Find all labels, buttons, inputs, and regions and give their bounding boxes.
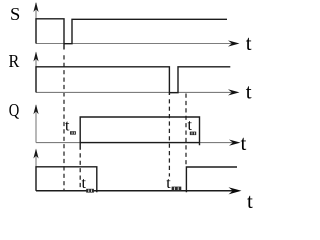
R time axis (36, 53, 233, 93)
Q axis vertical arrowhead (33, 104, 38, 114)
svg-text:t: t (65, 118, 70, 135)
R axis vertical arrowhead (33, 52, 38, 62)
dashed marker at R falling edge x=169.4 (168, 99, 170, 176)
dashed marker at Q rising edge x=80 (79, 153, 81, 190)
dashed marker at S falling edge x=64 (63, 55, 65, 190)
svg-text:R: R (9, 51, 20, 71)
S time axis (36, 3, 233, 44)
Qbar axis vertical arrowhead (33, 149, 38, 159)
svg-text:t: t (247, 189, 253, 210)
svg-text:t: t (246, 79, 252, 103)
Qbar axis horizontal arrowhead (229, 187, 242, 194)
svg-text:t: t (241, 131, 247, 155)
S axis horizontal arrowhead (228, 40, 240, 46)
dashed marker at Qbar rising edge x=186 (185, 94, 187, 167)
svg-text:t: t (82, 175, 87, 192)
Q time axis (36, 105, 234, 142)
Q pulse bottom (dark axis segment) (80, 142, 199, 144)
S waveform (36, 19, 227, 50)
Qbar time axis (35, 150, 37, 191)
S axis vertical arrowhead (33, 2, 38, 12)
R waveform (36, 67, 230, 95)
svg-text:Q: Q (9, 100, 19, 120)
Qbar waveform (36, 167, 237, 192)
svg-text:S: S (10, 4, 20, 24)
Q axis horizontal arrowhead (229, 140, 241, 146)
Q waveform pulse (80, 117, 199, 150)
svg-text:t: t (246, 31, 252, 55)
svg-text:t: t (166, 175, 171, 192)
R axis horizontal arrowhead (228, 89, 240, 95)
svg-text:t: t (188, 117, 193, 134)
